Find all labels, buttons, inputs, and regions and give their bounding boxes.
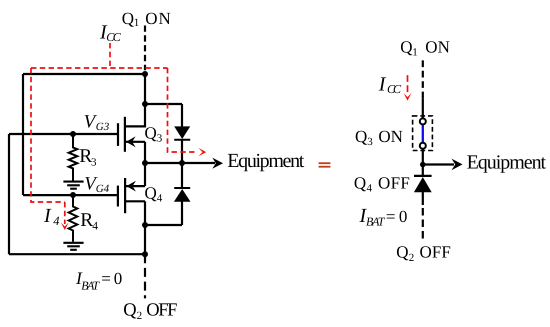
svg-text:CC: CC — [387, 82, 402, 96]
svg-text:Q: Q — [145, 123, 157, 142]
svg-text:4: 4 — [53, 214, 59, 228]
svg-text:= 0: = 0 — [101, 269, 122, 288]
svg-text:4: 4 — [92, 221, 98, 233]
svg-text:OFF: OFF — [420, 243, 451, 262]
svg-text:OFF: OFF — [146, 301, 177, 321]
svg-text:3: 3 — [367, 136, 373, 148]
svg-text:2: 2 — [409, 252, 415, 264]
svg-text:Equipment: Equipment — [227, 150, 304, 172]
svg-text:= 0: = 0 — [386, 207, 408, 226]
svg-text:2: 2 — [137, 310, 143, 322]
svg-text:Q: Q — [396, 243, 408, 262]
svg-text:BAT: BAT — [81, 279, 100, 293]
svg-text:G3: G3 — [96, 121, 110, 133]
svg-text:Q: Q — [400, 37, 412, 56]
svg-text:G4: G4 — [96, 183, 110, 195]
svg-text:OFF: OFF — [378, 173, 410, 192]
svg-text:Q: Q — [123, 301, 137, 321]
svg-text:CC: CC — [106, 30, 121, 44]
svg-text:4: 4 — [157, 192, 163, 204]
svg-text:ON: ON — [378, 127, 403, 146]
svg-text:1: 1 — [134, 17, 140, 29]
svg-text:ON: ON — [145, 9, 171, 28]
svg-text:Q: Q — [122, 9, 134, 28]
svg-text:I: I — [378, 74, 387, 96]
svg-text:ON: ON — [425, 37, 450, 56]
svg-text:BAT: BAT — [366, 214, 386, 228]
svg-text:Q: Q — [354, 173, 366, 192]
svg-text:1: 1 — [412, 47, 418, 59]
svg-text:3: 3 — [157, 132, 163, 144]
svg-text:Equipment: Equipment — [467, 151, 547, 173]
svg-text:3: 3 — [91, 157, 97, 169]
svg-text:4: 4 — [367, 182, 373, 194]
svg-text:Q: Q — [145, 183, 157, 202]
svg-text:Q: Q — [355, 127, 367, 146]
svg-text:I: I — [43, 205, 52, 227]
